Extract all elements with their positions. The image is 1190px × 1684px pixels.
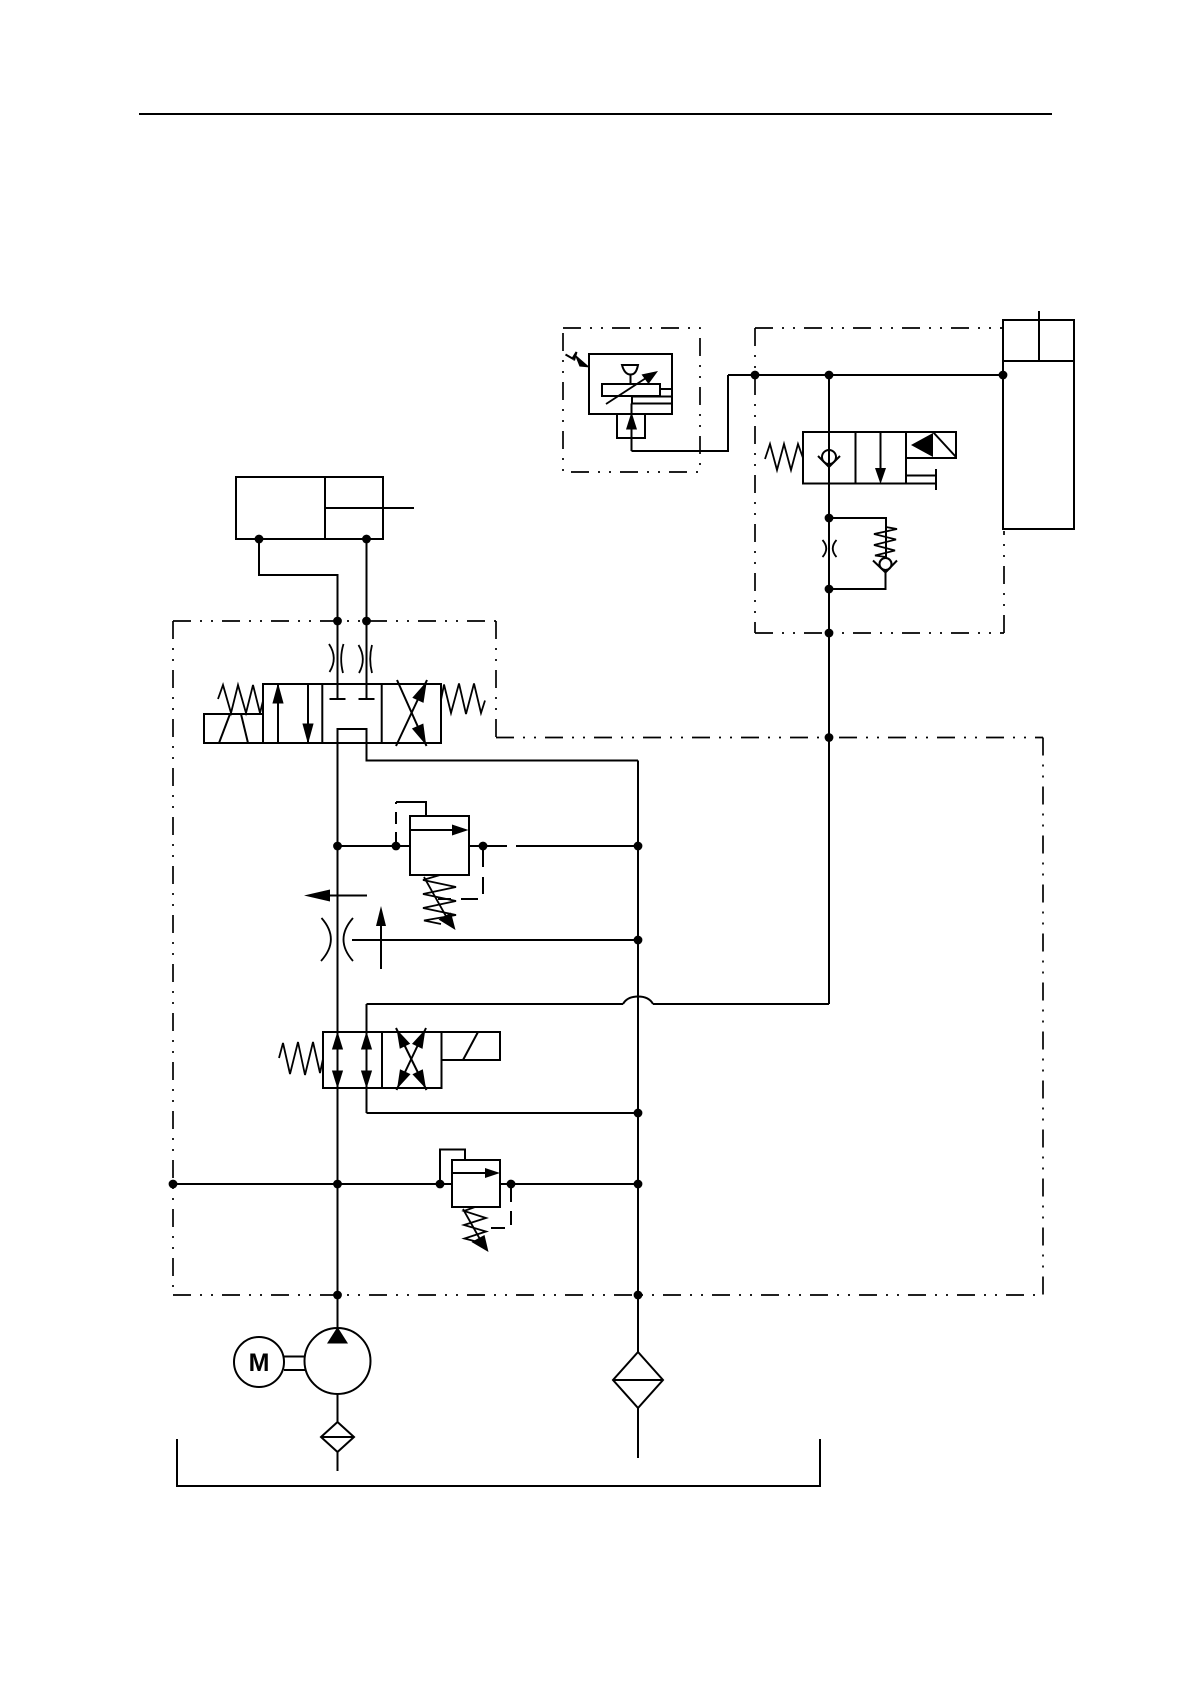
- tank reservoir: [177, 1439, 820, 1486]
- FC adjustability diagonal arrow: [606, 371, 658, 404]
- wire return line vertical: [637, 761, 639, 1353]
- wire pump suction: [337, 1394, 339, 1422]
- RV2 adjusting arrow: [463, 1209, 489, 1252]
- FC electric actuation lightning arrow: [566, 352, 591, 368]
- wire V2 drain to return line: [367, 1112, 639, 1114]
- cylinder A (left, horizontal): [236, 477, 414, 539]
- wire orifice tap to return line: [352, 939, 638, 941]
- wire cylinder A right port to valve V1 port B: [366, 539, 368, 699]
- V2 solenoid: [442, 1032, 501, 1060]
- cylinder B (top right, vertical): [1003, 311, 1074, 529]
- RV2 body: [452, 1160, 500, 1207]
- relief valve RV2 line: [173, 1183, 638, 1185]
- enclosure manifold block (dash-dot): [173, 621, 1043, 1295]
- RV1 body: [410, 816, 469, 875]
- valve V2 4/2 solenoid valve body: [323, 1032, 442, 1088]
- solenoid cartridge valve SV body: [803, 432, 906, 484]
- valve V1 4/3 proportional directional valve body: [263, 684, 441, 743]
- variable orifice arcs: [321, 918, 353, 961]
- V1 right spring: [441, 684, 485, 715]
- V1 right position crossed arrows: [396, 680, 427, 746]
- orifice O2 (line B): [359, 645, 373, 673]
- SV flow down arrow: [875, 432, 886, 484]
- header rule: [139, 113, 1052, 115]
- variable orifice up arrow: [376, 906, 386, 969]
- FC pilot cup symbol: [622, 365, 638, 375]
- wire strainer to tank: [337, 1452, 339, 1471]
- check valve CV1 bypass loop: [829, 518, 886, 589]
- flow control valve FC body: [589, 354, 672, 414]
- orifice O1 (line A): [329, 644, 344, 673]
- V1 left spring: [218, 685, 263, 713]
- RV2 spring: [464, 1207, 486, 1242]
- V1 center position blocked port T symbols: [330, 684, 375, 699]
- V2 return spring (left): [279, 1042, 323, 1075]
- FC cup stem: [630, 375, 632, 385]
- RV1 adjusting arrow: [424, 877, 456, 930]
- RV2 pilot sense line (left): [440, 1150, 465, 1185]
- SV detent symbol: [906, 469, 936, 490]
- orifice O3 (in SV branch): [823, 540, 837, 557]
- wire V1 tank port T to return line: [367, 729, 639, 761]
- relief valve RV1 line: [338, 845, 639, 847]
- variable orifice left exit arrow: [304, 890, 367, 902]
- svg-text:M: M: [249, 1349, 270, 1377]
- pump P: [305, 1327, 371, 1394]
- RV1 spring: [423, 875, 456, 924]
- suction strainer: [321, 1422, 354, 1452]
- wire supply line to cylinder B: [728, 374, 1003, 376]
- wire pilot through valve V2: [366, 1004, 368, 1113]
- wire FC outlet to supply line: [632, 375, 729, 451]
- RV2 drain pilot (right, dashed): [487, 1188, 511, 1228]
- FC upward flow arrow: [626, 404, 637, 452]
- V2 right position crossed arrows: [396, 1028, 427, 1090]
- wire main vertical through SV to manifold: [828, 375, 830, 1004]
- SV return spring: [765, 444, 803, 470]
- SV check ball symbol: [818, 450, 840, 467]
- wire filter to tank: [637, 1408, 639, 1458]
- wire cylinder A left port to valve V1 port A: [259, 539, 338, 699]
- V1 left position up arrow: [272, 683, 283, 743]
- enclosure box SV (counterbalance block, dash-dot): [755, 328, 1004, 633]
- V2 left position double arrow 2: [361, 1032, 372, 1089]
- SV proportional solenoid: [906, 432, 956, 458]
- RV2 flow arrow: [452, 1168, 500, 1178]
- V1 left position down arrow: [302, 684, 313, 744]
- V1 proportional solenoid (left): [204, 714, 263, 743]
- FC spool land rectangle lower: [632, 397, 672, 404]
- RV1 drain pilot (right, dashed): [438, 850, 483, 899]
- FC spool land rectangle upper: [602, 384, 660, 396]
- motor-pump coupling: [284, 1357, 305, 1371]
- RV1 pilot sense line (left): [396, 802, 426, 844]
- FC bottom port U box: [617, 414, 645, 438]
- RV1 flow arrow: [410, 825, 469, 836]
- CV1 check ball: [873, 558, 897, 573]
- motor M: [234, 1337, 284, 1387]
- wire V1 pressure port P down the manifold: [337, 729, 339, 1327]
- FC tab line to right edge: [660, 388, 672, 390]
- V1 center position bottom bridge notch: [338, 729, 367, 743]
- CV1 spring: [874, 527, 897, 557]
- return filter F: [613, 1352, 663, 1408]
- wire pilot line with hop over return: [367, 997, 830, 1005]
- V2 left position double arrow 1: [332, 1032, 343, 1089]
- enclosure box FC (flow control pilot block, dash-dot): [563, 328, 700, 472]
